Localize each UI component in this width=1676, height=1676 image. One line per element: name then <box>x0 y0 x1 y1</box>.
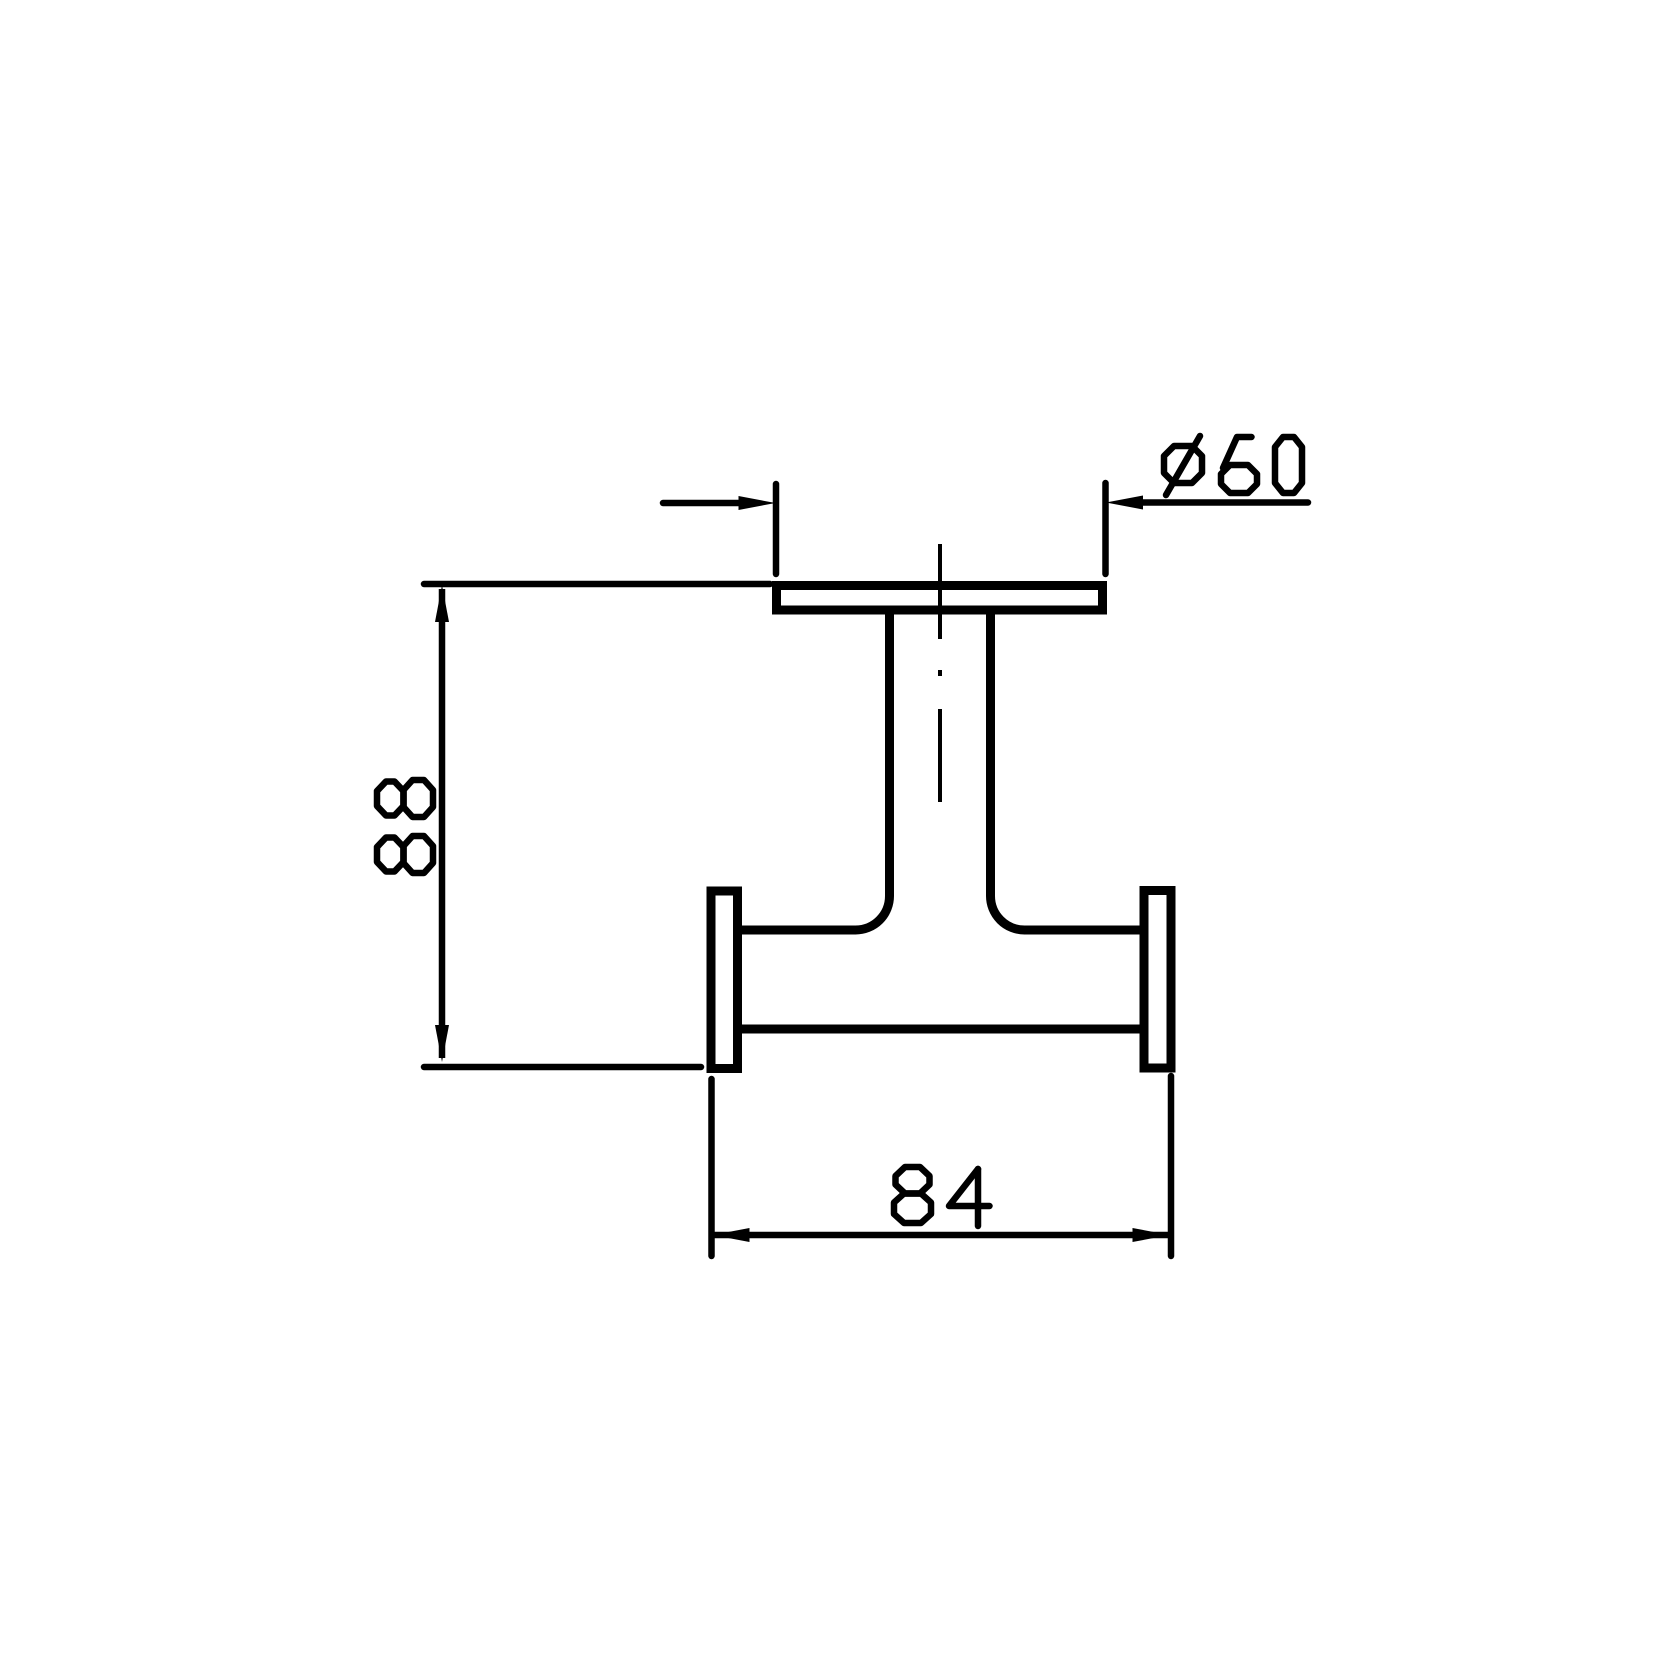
right end cap <box>1144 891 1171 1069</box>
88 bottom arrowhead <box>435 1025 449 1062</box>
88 bottom extension line <box>424 1064 701 1071</box>
digit 0 <box>1275 437 1302 493</box>
lower 8 <box>377 836 433 873</box>
stem left outline with fillet into bar <box>740 612 890 930</box>
84 left arrowhead <box>713 1228 750 1242</box>
digit 8 <box>894 1167 931 1223</box>
digit 4 <box>949 1169 990 1206</box>
Ø60 left arrow leader <box>663 500 745 507</box>
88 dimension text (rotated) <box>377 780 433 873</box>
Ø60 right extension line <box>1102 483 1109 574</box>
center line (dash-dot) <box>938 544 942 802</box>
Ø60 left arrowhead <box>739 496 776 510</box>
Ø60 right arrowhead <box>1106 496 1143 510</box>
84 dimension text <box>894 1167 990 1226</box>
84 right arrowhead <box>1133 1228 1170 1242</box>
88 top extension line <box>424 581 770 588</box>
88 dimension line <box>439 589 446 1058</box>
stem right outline with fillet into bar <box>991 612 1141 930</box>
bar bottom edge <box>740 1025 1140 1034</box>
upper 8 <box>377 780 433 817</box>
88 top arrowhead <box>435 585 449 622</box>
diameter symbol ring <box>1164 446 1202 483</box>
84 left extension line <box>708 1079 715 1256</box>
84 right extension line <box>1168 1076 1175 1256</box>
Ø60 left extension line <box>773 484 780 574</box>
Ø60 dimension text <box>1164 436 1302 495</box>
Ø60 right arrow leader <box>1135 499 1308 506</box>
wall flange plate (top, Ø60) <box>777 586 1103 611</box>
84 dimension line <box>714 1232 1168 1239</box>
digit 6 <box>1223 437 1252 468</box>
left end cap <box>711 891 738 1069</box>
diameter symbol slash <box>1166 436 1200 495</box>
